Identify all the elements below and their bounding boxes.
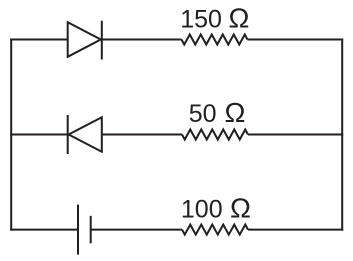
wire: bottom row, right segment bbox=[248, 229, 343, 231]
wire: middle row, right segment bbox=[248, 134, 343, 136]
svg-text:150: 150 bbox=[180, 5, 222, 33]
diode D1 (anode left, cathode right) triangle bbox=[68, 22, 101, 57]
diode D2 cathode bar (cathode left) bbox=[67, 115, 69, 154]
svg-text:50: 50 bbox=[189, 100, 217, 128]
wire: bottom row, left segment bbox=[10, 229, 77, 231]
wire: middle row, left segment bbox=[10, 134, 67, 136]
wire: top row, right segment bbox=[248, 39, 344, 41]
svg-text:Ω: Ω bbox=[230, 192, 251, 223]
diode D2 triangle (pointing left) bbox=[69, 117, 102, 152]
svg-text:100: 100 bbox=[181, 195, 223, 223]
wire: top row, left segment bbox=[10, 39, 67, 41]
resistor R3 100 ohm zigzag bbox=[182, 225, 248, 235]
wire: right rail bbox=[341, 39, 343, 231]
wire: bottom row, middle segment bbox=[91, 229, 182, 231]
diode D1 cathode bar bbox=[101, 21, 103, 60]
resistor R2 50 ohm zigzag bbox=[182, 130, 248, 140]
battery long plate (positive) bbox=[77, 205, 79, 255]
wire: middle row, middle segment bbox=[102, 134, 182, 136]
svg-text:Ω: Ω bbox=[225, 97, 246, 128]
wire: top row, middle segment bbox=[102, 39, 182, 41]
resistor R1 150 ohm zigzag bbox=[182, 35, 248, 45]
wire: left rail bbox=[10, 39, 12, 231]
battery short plate (negative) bbox=[90, 216, 92, 244]
svg-text:Ω: Ω bbox=[229, 2, 250, 33]
